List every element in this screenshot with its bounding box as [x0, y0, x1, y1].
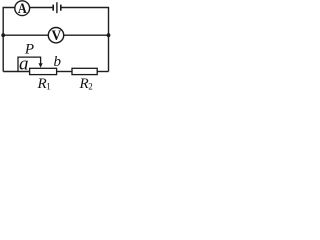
- svg-text:b: b: [54, 54, 62, 70]
- wire between R1 and R2: [57, 71, 72, 73]
- wire middle left (to voltmeter): [3, 34, 48, 36]
- ammeter A: [15, 0, 30, 16]
- svg-text:V: V: [52, 27, 62, 44]
- battery: [53, 2, 61, 13]
- wire middle right (voltmeter to right rail): [64, 34, 109, 36]
- svg-text:a: a: [19, 53, 29, 74]
- svg-text:A: A: [18, 0, 27, 16]
- wire bottom left segment: [3, 71, 29, 73]
- potentiometer slider arm P: [18, 57, 43, 71]
- wire top-left segment: [3, 8, 15, 72]
- wire battery to top-right corner and right rail: [61, 8, 109, 72]
- wire ammeter to battery: [30, 7, 54, 9]
- node right junction: [107, 33, 111, 37]
- resistor R1: [30, 68, 57, 74]
- voltmeter V: [48, 27, 63, 44]
- wire R2 to bottom-right corner: [97, 71, 108, 73]
- resistor R2: [72, 68, 97, 74]
- node left junction: [1, 33, 5, 37]
